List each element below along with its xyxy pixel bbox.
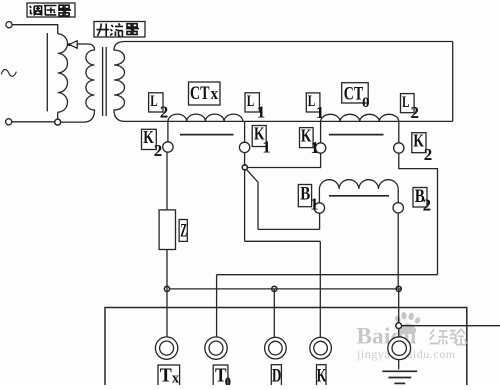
regulator T1 core xyxy=(46,33,48,112)
wire AC bottom to regulator bottom terminal xyxy=(12,121,55,123)
booster T2 core xyxy=(103,47,107,116)
svg-text:x: x xyxy=(211,84,219,103)
wire contact to B1 column xyxy=(258,228,320,230)
wire Z down to Tx terminal xyxy=(166,250,168,337)
CT0 K1 label xyxy=(300,128,314,148)
svg-text:B: B xyxy=(300,184,310,205)
earth link node xyxy=(396,323,402,329)
svg-text:1: 1 xyxy=(262,138,271,157)
wire junction down to earth link xyxy=(398,290,400,324)
watermark Baidu logo paw xyxy=(394,312,421,335)
svg-text:2: 2 xyxy=(423,196,432,215)
CT0 K2 stub xyxy=(398,121,400,142)
svg-text:T: T xyxy=(160,365,172,386)
svg-text:1: 1 xyxy=(311,138,320,157)
switch pivot junction xyxy=(242,165,247,170)
booster T2 primary winding xyxy=(84,44,95,122)
CTx K2 terminal xyxy=(163,142,173,152)
B winding stub left xyxy=(318,189,320,203)
wire CTx K2 down to Z xyxy=(166,152,168,210)
booster label text 升流器 (vector strokes) xyxy=(97,23,140,36)
B winding stub right xyxy=(397,189,399,203)
CT0 K1 stub xyxy=(320,121,322,142)
wire blade contact down xyxy=(257,182,259,229)
svg-text:1: 1 xyxy=(316,103,325,122)
wire B2 down to line B junction xyxy=(397,213,399,288)
regulator label box 调压器 xyxy=(27,3,75,17)
CT under test label box CTx xyxy=(189,82,221,105)
svg-text:L: L xyxy=(150,93,158,110)
svg-text:2: 2 xyxy=(160,103,169,122)
booster T2 secondary winding xyxy=(114,42,125,122)
B1 label xyxy=(298,185,311,207)
regulator label text 调压器 (vector strokes) xyxy=(30,5,72,16)
impedance Z body xyxy=(159,210,175,250)
svg-text:2: 2 xyxy=(411,103,420,122)
wire line A (T0 to CT0-K2 drop) xyxy=(217,274,438,276)
impedance label Z box xyxy=(179,220,187,242)
CT0 K2 terminal xyxy=(394,143,404,153)
svg-text:x: x xyxy=(172,371,179,386)
CT0 core bar xyxy=(329,134,384,136)
wire T0 column down xyxy=(216,275,218,337)
svg-text:K: K xyxy=(413,130,424,150)
wire AC top to regulator coil xyxy=(12,25,58,34)
regulator wiper arrow xyxy=(75,43,89,45)
CT0 K1 terminal xyxy=(315,143,325,153)
wire pivot to CT0 K1 xyxy=(247,153,321,167)
CTx terminal label L2 xyxy=(149,93,163,112)
CTx terminal label L1 xyxy=(245,93,259,112)
ground symbol xyxy=(398,360,400,370)
regulator bottom junction terminal xyxy=(57,112,59,119)
wire up to B1 xyxy=(319,213,321,229)
terminal label T0 xyxy=(213,365,228,387)
wire CTx K1 down to switch pivot xyxy=(244,153,246,166)
switch blade xyxy=(246,169,258,182)
wire earth link to right edge xyxy=(402,325,500,327)
B2 label xyxy=(413,188,427,208)
terminal label D xyxy=(271,365,281,387)
test set panel box xyxy=(105,308,467,386)
CTx K1 terminal xyxy=(239,142,249,152)
wire regulator bottom to booster primary xyxy=(61,121,84,123)
wire switch pivot down xyxy=(244,169,246,242)
terminal D xyxy=(265,337,287,359)
terminal Tx xyxy=(155,337,177,359)
CTx K2 label xyxy=(142,129,157,149)
CT0 terminal label L1 xyxy=(306,93,320,112)
CT0 primary winding xyxy=(321,114,399,121)
B winding core bar xyxy=(329,195,389,197)
svg-text:CT: CT xyxy=(344,83,364,104)
terminal T0 xyxy=(205,337,227,359)
svg-text:2: 2 xyxy=(424,145,433,164)
regulator T1 winding xyxy=(58,34,68,112)
svg-text:L: L xyxy=(402,94,410,111)
junction D column xyxy=(272,286,277,291)
terminal K xyxy=(310,337,332,359)
B standard winding coil xyxy=(319,180,398,189)
svg-text:L: L xyxy=(308,93,316,110)
B1 terminal xyxy=(314,203,324,213)
wire right drop of loop xyxy=(452,42,454,122)
svg-text:L: L xyxy=(247,93,255,110)
svg-text:0: 0 xyxy=(362,95,370,111)
wire top bus xyxy=(125,41,453,43)
AC source terminal bottom xyxy=(6,119,12,125)
terminal label Tx xyxy=(158,365,180,387)
wire K column down xyxy=(319,241,321,337)
junction B2/ground column on line B xyxy=(396,286,401,291)
wire line B xyxy=(169,288,401,290)
CTx K2 stub xyxy=(167,121,169,141)
terminal E (grounded) xyxy=(388,337,411,360)
junction Tx column / line B xyxy=(164,286,169,291)
CT0 terminal label L2 xyxy=(401,94,415,113)
watermark 经验 (vector strokes) xyxy=(430,329,467,345)
svg-text:D: D xyxy=(272,365,281,385)
wire CT0 K2 down and right xyxy=(399,153,438,275)
wire D column down xyxy=(273,290,275,338)
B2 terminal xyxy=(393,203,403,213)
svg-text:1: 1 xyxy=(257,103,266,122)
CT0 K2 label xyxy=(412,133,426,153)
CTx K1 stub xyxy=(244,121,246,142)
AC tilde symbol xyxy=(1,69,16,76)
svg-text:0: 0 xyxy=(225,375,231,385)
standard CT label box CT0 xyxy=(342,83,369,103)
CTx primary winding xyxy=(168,114,243,121)
booster label box 升流器 xyxy=(94,22,145,38)
svg-text:1: 1 xyxy=(310,195,319,214)
wire earth link down to ground terminal xyxy=(398,329,400,337)
svg-text:K: K xyxy=(317,365,327,385)
terminal label K xyxy=(317,365,327,387)
svg-text:CT: CT xyxy=(190,83,210,104)
wire across to K column xyxy=(245,240,321,242)
svg-text:Z: Z xyxy=(180,221,187,242)
CTx K1 label xyxy=(252,126,266,147)
CTx core bar xyxy=(180,134,234,136)
AC source terminal top xyxy=(6,22,12,28)
svg-text:K: K xyxy=(143,127,154,147)
svg-text:2: 2 xyxy=(154,141,163,160)
wire main bus xyxy=(125,120,453,122)
